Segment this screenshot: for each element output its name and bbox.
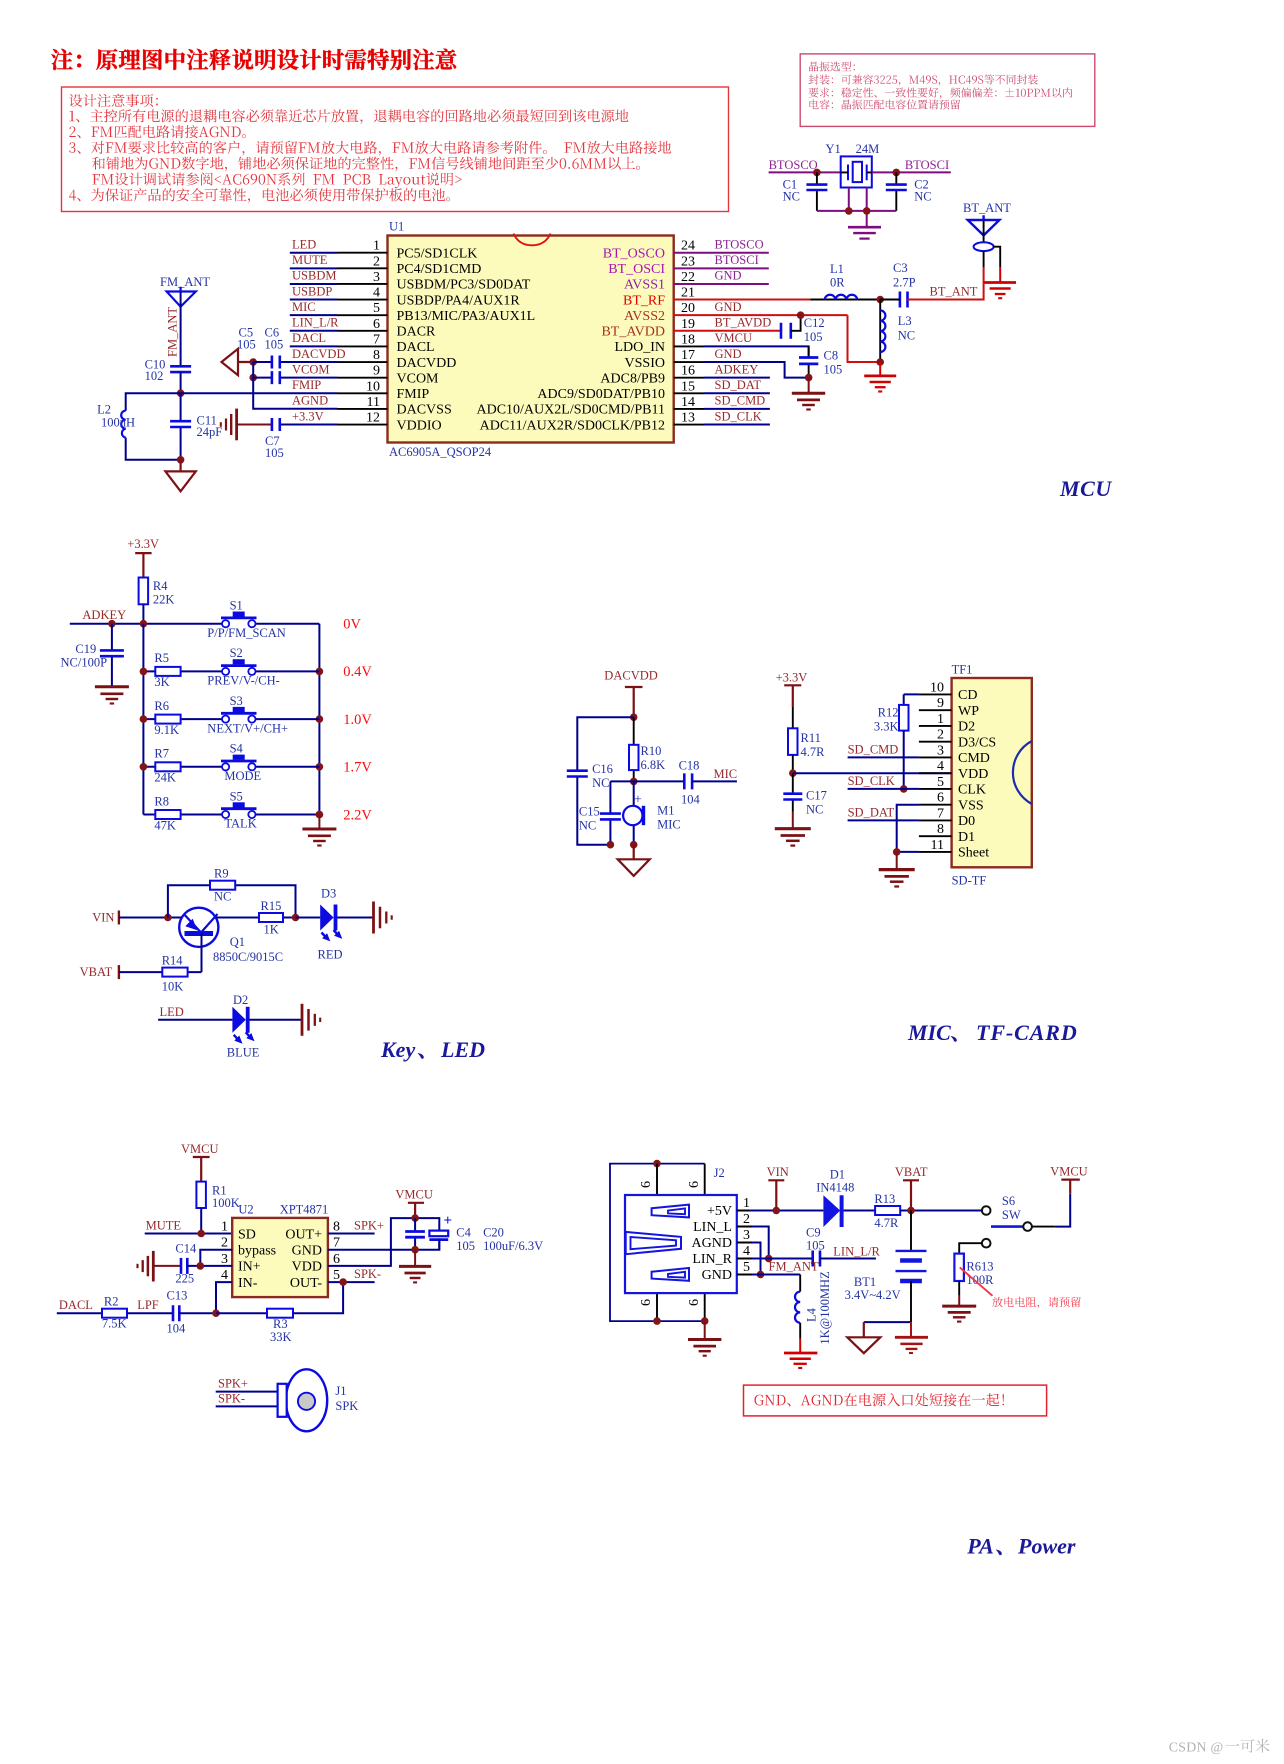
svg-text:J2: J2 [714,1166,725,1180]
wire net GND (pin 20) [674,314,848,316]
svg-text:R15: R15 [261,899,282,913]
svg-text:R11: R11 [801,731,821,745]
capacitor C9 105 [752,1258,813,1260]
svg-text:D2: D2 [233,993,248,1007]
wire C16 branch [577,717,633,845]
svg-text:RED: RED [318,948,343,962]
svg-text:M1: M1 [657,804,674,818]
wire net GND (pin 22) [674,283,769,285]
inductor L4 1K@100MHZ [795,1292,800,1323]
junction [863,207,871,215]
junction [876,296,884,304]
ground (BT_ANT, red earth) [984,283,1016,299]
svg-text:SPK+: SPK+ [354,1219,384,1233]
svg-text:105: 105 [456,1239,475,1253]
wire net USBDP (pin 4) [290,299,338,301]
pin 9 stub [338,377,388,379]
svg-text:BTOSCI: BTOSCI [715,253,759,267]
svg-text:6: 6 [687,1299,702,1306]
svg-text:C17: C17 [806,789,827,803]
pin4 IN- wire [216,1282,232,1313]
svg-text:0R: 0R [830,276,845,290]
svg-text:LED: LED [292,238,316,252]
wire crystal bottom bus [817,188,896,228]
svg-text:1: 1 [221,1220,228,1235]
svg-text:105: 105 [265,446,284,460]
svg-text:BTOSCI: BTOSCI [905,158,949,172]
svg-text:R5: R5 [154,651,169,665]
svg-text:1: 1 [373,239,380,254]
svg-text:FMIP: FMIP [292,378,321,392]
red note box GND AGND [744,1385,1047,1416]
svg-text:105: 105 [806,1239,825,1253]
svg-text:+3.3V: +3.3V [127,537,159,551]
svg-text:21: 21 [681,286,695,301]
svg-text:16: 16 [681,364,695,379]
svg-text:C9: C9 [806,1226,821,1240]
svg-text:TF-CARD: TF-CARD [976,1020,1078,1045]
wire VIN [119,917,182,919]
svg-text:19: 19 [681,317,695,332]
svg-text:6: 6 [373,317,380,332]
svg-text:105: 105 [804,330,823,344]
pin 5 CLK [919,788,952,790]
resistor R2 7.5K [102,1309,127,1318]
wire net ADKEY (pin 16) [674,377,704,379]
svg-text:9: 9 [937,696,944,711]
junction [630,841,638,849]
resistor R12 3.3K [904,694,919,705]
svg-text:LPF: LPF [137,1298,159,1312]
AGND arrow [222,349,254,375]
svg-text:R6: R6 [154,699,169,713]
resistor R10 6.8K [633,717,635,781]
svg-text:C14: C14 [175,1241,197,1255]
svg-text:SD_CMD: SD_CMD [848,742,899,756]
svg-text:8: 8 [373,348,380,363]
wire BTOSCI [872,171,951,173]
pin 8 stub [338,361,388,363]
junction [845,207,853,215]
switch S4 MODE [256,766,320,768]
svg-text:R4: R4 [153,579,168,593]
wire ADKEY [70,623,222,625]
svg-text:C18: C18 [679,758,700,772]
svg-text:SD_DAT: SD_DAT [848,805,895,819]
svg-text:1.0V: 1.0V [343,712,372,728]
svg-text:NC/100P: NC/100P [61,656,108,670]
wire net DACL (pin 7) [290,345,338,347]
junction [876,358,884,366]
svg-text:GND: GND [715,269,742,283]
capacitor C7 105 [237,424,272,426]
svg-text:BT_AVDD: BT_AVDD [601,325,665,340]
junction [701,1317,709,1325]
svg-text:105: 105 [265,338,284,352]
svg-text:PB13/MIC/PA3/AUX1L: PB13/MIC/PA3/AUX1L [397,309,536,324]
svg-text:VMCU: VMCU [181,1142,219,1156]
svg-text:225: 225 [175,1271,194,1285]
transistor Q1 8850C/9015C [179,908,218,947]
switch S3 NEXT/V+/CH+ [256,718,320,720]
svg-text:8: 8 [333,1220,340,1235]
svg-text:DACL: DACL [292,331,326,345]
svg-text:R12: R12 [878,705,899,719]
svg-text:MUTE: MUTE [146,1218,182,1232]
switch S1 P/P/FM_SCAN [256,623,320,625]
svg-text:2: 2 [373,254,380,269]
pin 3 stub [338,283,388,285]
wire BTOSCO [769,171,841,173]
capacitor C18 104 [634,780,685,782]
svg-text:23: 23 [681,254,695,269]
svg-text:DACVSS: DACVSS [397,403,452,418]
svg-text:Sheet: Sheet [958,846,989,861]
svg-text:R3: R3 [273,1317,288,1331]
ground (keys bus, maroon earth) [302,815,336,846]
junction [316,668,324,676]
svg-text:R14: R14 [162,953,184,967]
svg-text:ADC10/AUX2L/SD0CMD/PB11: ADC10/AUX2L/SD0CMD/PB11 [476,403,665,418]
svg-text:VBAT: VBAT [895,1165,928,1179]
junction [900,785,908,793]
svg-text:C16: C16 [592,762,613,776]
power VMCU (S6) [1061,1180,1080,1194]
svg-text:8850C/9015C: 8850C/9015C [213,950,283,964]
junction [197,1262,205,1270]
svg-text:BT_OSCO: BT_OSCO [603,247,665,262]
svg-text:LIN_L: LIN_L [693,1220,732,1235]
svg-text:105: 105 [824,363,843,377]
svg-text:USBDM: USBDM [292,269,336,283]
svg-text:24: 24 [681,239,695,254]
svg-text:9: 9 [373,364,380,379]
pin 10 CD [919,693,952,695]
pin5 OUT- wire / net SPK- [328,1281,375,1283]
svg-text:SPK-: SPK- [354,1267,381,1281]
svg-text:2: 2 [743,1212,750,1227]
svg-text:FM_ANT: FM_ANT [160,275,210,289]
resistor R9 NC [168,885,296,917]
svg-text:ADC11/AUX2R/SD0CLK/PB12: ADC11/AUX2R/SD0CLK/PB12 [480,418,665,433]
svg-text:MODE: MODE [224,769,261,783]
wire net MUTE (pin 2) [290,267,338,269]
resistor R1 100K [196,1182,206,1208]
svg-text:DACR: DACR [397,325,437,340]
svg-text:14: 14 [681,395,695,410]
wire net LED (pin 1) [290,252,338,254]
wire +5V to D1 [749,1210,823,1212]
svg-text:NEXT/V+/CH+: NEXT/V+/CH+ [207,721,288,735]
antenna BT_ANT [968,215,1000,235]
svg-text:SW: SW [1002,1208,1021,1222]
svg-text:+: + [634,793,642,808]
junction [140,620,148,628]
pin 12 stub [338,424,388,426]
svg-text:SD-TF: SD-TF [952,874,987,888]
svg-text:PC5/SD1CLK: PC5/SD1CLK [397,247,478,262]
pin 7 stub [338,345,388,347]
LED D3 RED [296,917,374,919]
svg-text:VSS: VSS [958,798,984,813]
battery BT1 3.4V~4.2V [910,1211,912,1251]
svg-text:17: 17 [681,348,695,363]
svg-text:GND: GND [715,347,742,361]
capacitor C13 104 [173,1305,179,1321]
svg-text:24K: 24K [154,771,176,785]
svg-text:D2: D2 [958,720,975,735]
wire net BTOSCI (pin 23) [674,267,769,269]
svg-text:SPK+: SPK+ [218,1377,248,1391]
svg-text:1K@100MHZ: 1K@100MHZ [818,1271,832,1344]
red annotation arc on U1 top [514,234,551,246]
wire VSS/Sheet to ground [897,805,919,852]
svg-text:SPK-: SPK- [218,1391,245,1405]
wire AGND jog pin3 to pin5 row [752,1243,761,1275]
wire left bus [142,624,144,815]
ground AGND (open triangle) [847,1322,880,1353]
svg-text:SPK: SPK [335,1399,358,1413]
capacitor C1 NC [806,172,827,211]
svg-text:ADC9/SD0DAT/PB10: ADC9/SD0DAT/PB10 [537,387,665,402]
svg-text:12: 12 [366,411,380,426]
svg-text:4: 4 [937,759,944,774]
pin 4 stub [338,299,388,301]
wire antenna down [180,292,182,366]
svg-text:NC: NC [898,329,915,343]
svg-text:NC: NC [806,803,823,817]
svg-text:PA: PA [966,1533,993,1558]
ground (C4, maroon earth) [399,1250,431,1283]
svg-text:0.4V: 0.4V [343,664,372,680]
svg-text:C13: C13 [167,1288,188,1302]
svg-text:BT_ANT: BT_ANT [930,284,978,298]
svg-text:VDD: VDD [958,767,988,782]
switch S5 TALK [256,814,320,816]
svg-text:R613: R613 [966,1260,993,1274]
svg-text:XPT4871: XPT4871 [280,1203,329,1217]
capacitor C6 105 [253,361,337,363]
junction [411,1246,419,1254]
svg-text:U2: U2 [238,1203,253,1217]
svg-text:GND: GND [715,300,742,314]
svg-text:4.7R: 4.7R [874,1216,899,1230]
ground (crystal, purple earth) [848,227,881,238]
junction [630,778,638,786]
svg-text:18: 18 [681,332,695,347]
svg-text:15: 15 [681,379,695,394]
svg-text:Power: Power [1017,1533,1076,1558]
capacitor C15 NC [609,781,611,844]
svg-text:USBDP/PA4/AUX1R: USBDP/PA4/AUX1R [397,293,521,308]
junction [773,1207,781,1215]
svg-text:MIC: MIC [714,767,738,781]
resistor R11 4.7R [788,728,798,755]
svg-text:S5: S5 [230,789,243,803]
svg-text:BLUE: BLUE [227,1045,260,1059]
junction [197,1230,205,1238]
resistor R6 9.1K [143,718,222,720]
svg-text:VMCU: VMCU [1050,1165,1088,1179]
svg-text:104: 104 [681,792,701,806]
svg-text:D1: D1 [830,1168,845,1182]
svg-text:D3/CS: D3/CS [958,735,996,750]
svg-text:D1: D1 [958,830,975,845]
svg-text:7: 7 [937,806,944,821]
svg-text:MIC: MIC [292,300,316,314]
svg-text:LDO_IN: LDO_IN [614,340,665,355]
junction [789,769,797,777]
svg-text:OUT-: OUT- [290,1276,322,1291]
svg-text:P/P/FM_SCAN: P/P/FM_SCAN [207,626,286,640]
svg-text:102: 102 [145,369,164,383]
svg-text:5: 5 [373,301,380,316]
svg-text:USBDM/PC3/SD0DAT: USBDM/PC3/SD0DAT [397,278,531,293]
svg-text:24pF: 24pF [197,425,223,439]
svg-text:6: 6 [937,791,944,806]
svg-text:LIN_R: LIN_R [692,1252,732,1267]
svg-text:LED: LED [440,1037,485,1062]
junction [316,811,324,819]
ground (D3, rotated earth) [374,902,392,934]
junction [316,763,324,771]
svg-text:SD_CLK: SD_CLK [715,409,762,423]
ground (C17, maroon earth) [775,812,811,846]
junction [813,169,821,177]
svg-text:8: 8 [937,822,944,837]
svg-text:BT_AVDD: BT_AVDD [715,316,772,330]
capacitor C5 105 [253,377,337,379]
resistor R15 1K [259,913,283,922]
svg-text:22: 22 [681,270,695,285]
svg-text:BT_ANT: BT_ANT [963,201,1011,215]
microphone M1 MIC [633,781,635,844]
resistor R5 3K [143,670,222,672]
wire collector to R15 [216,917,296,919]
svg-text:DACVDD: DACVDD [604,669,657,683]
wire pin5 to L4 [752,1274,800,1276]
svg-text:33K: 33K [270,1330,292,1344]
svg-text:0V: 0V [343,617,361,633]
wire net VMCU (pin 18) [674,345,704,347]
svg-text:VDD: VDD [292,1260,322,1275]
ground (L4, red earth) [784,1339,817,1368]
svg-text:R7: R7 [154,747,169,761]
IC U1 AC6905A_QSOP24 body [388,236,674,443]
svg-text:S2: S2 [230,646,243,660]
ground (C14, rotated earth) [138,1251,154,1282]
svg-text:3.3K: 3.3K [874,719,899,733]
svg-text:NC: NC [214,890,231,904]
svg-text:PC4/SD1CMD: PC4/SD1CMD [397,262,482,277]
resistor R13 4.7R [844,1210,876,1212]
junction [765,1255,773,1263]
crystal selection note box [800,54,1095,127]
svg-text:7: 7 [373,332,380,347]
svg-text:C12: C12 [804,316,825,330]
pin6 VDD riser [328,1218,439,1266]
svg-text:4: 4 [743,1244,750,1259]
USB contact bottom [652,1268,689,1281]
svg-text:IN-: IN- [238,1276,258,1291]
svg-text:L4: L4 [805,1307,819,1322]
svg-text:5: 5 [937,775,944,790]
resistor R3 33K [216,1312,267,1314]
junction [339,1278,347,1286]
wire net SD_CLK (pin 13) [674,424,704,426]
svg-text:L1: L1 [830,262,844,276]
svg-text:22K: 22K [153,593,175,607]
svg-text:10K: 10K [162,979,184,993]
capacitor C4 105 [414,1218,416,1250]
pin 4 VDD [919,772,952,774]
svg-text:NC: NC [579,818,596,832]
svg-text:VCOM: VCOM [397,371,440,386]
wire AGND vertical [253,362,337,409]
title: 注：原理图中注释说明设计时需特别注意 [51,49,456,70]
junction [140,668,148,676]
pin 11 Sheet [919,851,952,853]
pin 2 stub [338,267,388,269]
svg-text:bypass: bypass [238,1244,276,1259]
svg-text:Key: Key [380,1037,415,1062]
svg-text:CSDN @: CSDN @ [1169,1740,1224,1755]
capacitor C8 105 [808,346,810,377]
junction [140,763,148,771]
svg-text:SD_CMD: SD_CMD [715,394,766,408]
capacitor C20 100uF/6.3V [429,1231,448,1237]
svg-text:CLK: CLK [958,783,986,798]
svg-text:2.2V: 2.2V [343,807,372,823]
wire net GND (pin 17) [674,361,704,363]
connector J2 outer frame [610,1164,706,1322]
svg-text:1: 1 [743,1196,750,1211]
svg-text:AGND: AGND [692,1236,732,1251]
wire right bus [318,624,320,815]
switch S2 PREV/V-/CH- [256,670,320,672]
USB tongue middle [626,1232,681,1254]
svg-text:9.1K: 9.1K [154,723,179,737]
svg-text:3: 3 [937,743,944,758]
svg-text:VIN: VIN [92,911,114,925]
wire net USBDM (pin 3) [290,283,338,285]
junction [249,358,257,366]
svg-text:AVSS2: AVSS2 [624,309,665,324]
design notes text [69,94,158,107]
svg-text:NC: NC [592,776,609,790]
design notes red box [62,87,729,212]
svg-text:+3.3V: +3.3V [292,409,324,423]
red annotation leader [960,1268,993,1296]
svg-text:DACVDD: DACVDD [292,347,345,361]
junction [292,914,300,922]
inductor L1 0R [674,299,811,301]
svg-text:47K: 47K [154,818,176,832]
svg-text:ADKEY: ADKEY [82,608,126,622]
svg-text:7.5K: 7.5K [102,1316,127,1330]
capacitor C10 102 [170,366,191,372]
svg-text:DACVDD: DACVDD [397,356,457,371]
svg-text:SD: SD [238,1227,256,1242]
switch S6 SW [982,1206,991,1215]
pin 11 stub [338,408,388,410]
svg-text:NC: NC [914,190,931,204]
svg-text:7: 7 [333,1236,340,1251]
wire net MIC (pin 5) [290,314,338,316]
svg-text:S4: S4 [230,742,244,756]
junction [249,374,257,382]
svg-text:AC6905A_QSOP24: AC6905A_QSOP24 [389,445,492,459]
